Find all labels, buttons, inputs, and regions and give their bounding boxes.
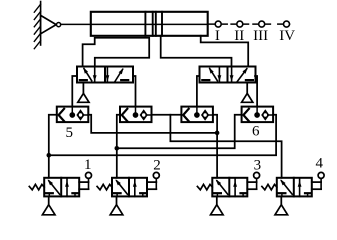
svg-text:IV: IV — [279, 28, 295, 44]
svg-text:4: 4 — [316, 156, 324, 172]
svg-text:I: I — [215, 28, 220, 44]
svg-text:3: 3 — [254, 157, 262, 173]
svg-text:II: II — [234, 28, 244, 44]
svg-text:1: 1 — [84, 157, 92, 173]
svg-text:6: 6 — [252, 123, 260, 139]
svg-text:III: III — [253, 28, 268, 44]
svg-text:5: 5 — [65, 125, 73, 141]
svg-text:2: 2 — [153, 157, 161, 173]
